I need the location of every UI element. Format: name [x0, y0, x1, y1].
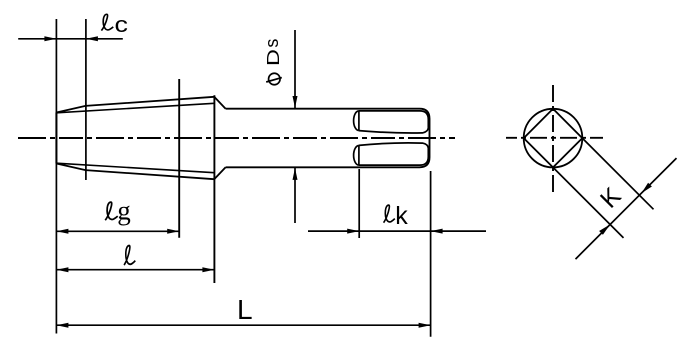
phiDs upper arrow line [294, 30, 296, 108]
top lobe of square drive [354, 111, 359, 131]
arrow lc left (tip at 56.4 pointing right) [44, 36, 56, 41]
tip face [55, 113, 57, 164]
end view square (diamond) [524, 109, 583, 168]
phiDs lower arrow line [294, 168, 296, 223]
arrow l right [202, 267, 214, 272]
shank outline with rounded right end [226, 109, 430, 168]
arrow K upper (tip at 641.5,193.1 pointing SW) [642, 183, 652, 193]
lc dimension line [18, 38, 123, 40]
lg dimension line [56, 230, 179, 232]
K extension line upper [582, 138, 653, 209]
svg-text:g: g [117, 196, 131, 226]
arrow lg right (pointing right) [167, 229, 179, 234]
lk dimension line [308, 230, 486, 232]
top root line [56, 103, 214, 113]
end view circle [524, 109, 583, 168]
extension line lk left [358, 169, 360, 238]
label lc [101, 14, 113, 30]
svg-text:k: k [395, 202, 408, 230]
svg-text:s: s [262, 39, 282, 48]
neck chamfer bottom [214, 167, 225, 179]
extension line lg right [178, 79, 180, 238]
main horizontal centerline [18, 137, 455, 139]
label lg [105, 202, 118, 220]
end view horizontal centerline [506, 137, 603, 139]
l dimension line [56, 269, 214, 271]
label l [124, 246, 135, 266]
top chamfer and crest [56, 97, 214, 113]
arrow lg left (pointing left) [56, 229, 68, 234]
arrow lk right (tip at 431 pointing left) [431, 229, 443, 234]
arrow L left [56, 323, 68, 328]
bottom chamfer and crest [56, 164, 214, 180]
arrow phiDs up (tip at 295,167.9) [293, 168, 298, 180]
L dimension line [56, 324, 430, 326]
extension line l right / taper end face [213, 95, 215, 283]
arrow l left [56, 267, 68, 272]
end view vertical centerline [552, 83, 554, 192]
bottom root line [56, 163, 214, 173]
svg-text:c: c [115, 13, 128, 37]
extension line L lk right [430, 171, 432, 337]
extension line left (tip face / lc lg l L datum) [55, 19, 57, 334]
arrow phiDs down (tip at 295,108) [293, 96, 298, 108]
svg-text:L: L [237, 294, 253, 325]
arrow L right [419, 323, 431, 328]
label lk [384, 205, 395, 223]
arrow lk left (tip at 358.8 pointing right) [347, 229, 359, 234]
neck chamfer top [214, 97, 225, 109]
svg-text:D: D [264, 49, 284, 66]
K extension line lower [553, 167, 624, 238]
label phiDs : phi drawn, D and s rotated [269, 73, 281, 85]
bottom lobe of square drive [354, 146, 359, 166]
K dimension line [576, 158, 677, 259]
arrow lc right (tip at 85.9 pointing left) [86, 36, 98, 41]
extension line lc right [85, 19, 87, 180]
arrow K lower (tip at 610.2,224.4 pointing NE) [599, 224, 610, 234]
